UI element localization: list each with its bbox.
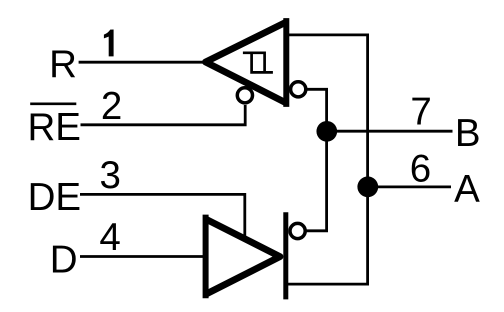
svg-text:3: 3 bbox=[100, 154, 121, 197]
svg-text:7: 7 bbox=[410, 91, 431, 134]
svg-text:D: D bbox=[50, 239, 78, 282]
svg-text:4: 4 bbox=[99, 216, 120, 259]
svg-text:6: 6 bbox=[410, 147, 431, 190]
svg-text:2: 2 bbox=[101, 85, 122, 128]
svg-text:B: B bbox=[455, 112, 481, 155]
svg-text:R: R bbox=[49, 43, 77, 86]
svg-text:RE: RE bbox=[28, 106, 81, 149]
svg-text:DE: DE bbox=[28, 176, 81, 219]
svg-text:A: A bbox=[454, 168, 480, 211]
